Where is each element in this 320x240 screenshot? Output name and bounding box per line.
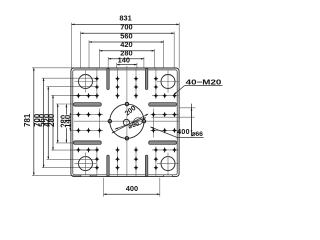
M20 tapped hole (174.5,95.7) xyxy=(172,93,177,99)
locating circle xyxy=(110,104,144,138)
hole column centerline x=155.9 bottom xyxy=(155,147,157,177)
M20 tapped hole (136,78.7) xyxy=(134,76,139,82)
leader diameter 200 xyxy=(112,114,148,133)
M20 tapped hole (88.5,114.6) xyxy=(86,112,91,118)
T-slot vertical bottom 1 xyxy=(107,155,109,176)
cluster column stub right xyxy=(152,109,154,138)
foot tab under BL tie bar xyxy=(81,175,90,177)
M20 tapped hole (99.6,114.6) xyxy=(97,112,102,118)
svg-text:400: 400 xyxy=(126,184,138,193)
small hole E on locating circle xyxy=(142,120,145,123)
M20 tapped hole (88.5,95.7) xyxy=(86,93,91,99)
tie bar hole BL xyxy=(75,153,97,175)
M20 tapped hole (136,149.9) xyxy=(134,147,139,153)
dimension 420 top xyxy=(99,40,154,68)
M20 tapped hole (99.6,130.4) xyxy=(97,127,102,133)
dimension 560 top xyxy=(89,31,164,68)
M20 tapped hole (155.9,159.2) xyxy=(154,156,159,162)
hole column centerline x=96.9 bottom xyxy=(96,147,98,177)
leader to right label xyxy=(150,127,203,138)
M20 tapped hole (155.9,95.7) xyxy=(154,93,159,99)
T-slot horizontal right 1 xyxy=(149,103,177,106)
wing row centerline y=149.9 right xyxy=(152,149,179,151)
dimension 280 near left edge xyxy=(59,104,68,142)
dimension 700 left xyxy=(33,78,97,167)
small hole W on locating circle xyxy=(108,120,111,123)
M20 tapped hole (155.9,167.7) xyxy=(154,165,159,171)
dimension 280 top xyxy=(108,49,144,69)
horizontal centerline xyxy=(74,120,179,122)
M20 tapped hole (174.5,130.4) xyxy=(172,127,177,133)
T-slot horizontal left 1 xyxy=(74,103,102,106)
M20 tapped hole (136,167.7) xyxy=(134,165,139,171)
tie bar hole BR xyxy=(157,153,179,175)
svg-text:781: 781 xyxy=(23,113,32,127)
M20 tapped hole (78.4,114.6) xyxy=(76,112,81,118)
dimension 400 bottom xyxy=(104,178,160,197)
T-slot vertical bottom 2 xyxy=(145,155,147,176)
wing row centerline y=95.7 right xyxy=(152,95,179,97)
M20 tapped hole (155.9,87) xyxy=(154,84,159,90)
hole column centerline x=136 top xyxy=(135,68,137,99)
M20 tapped hole (117.5,78.7) xyxy=(115,76,120,82)
M20 tapped hole (164.7,114.6) xyxy=(162,112,167,118)
M20 tapped hole (96.9,159.2) xyxy=(95,156,100,162)
M20 tapped hole (174.5,114.6) xyxy=(172,112,177,118)
small hole N on locating circle xyxy=(125,102,128,105)
M20 tapped hole (96.9,95.7) xyxy=(95,93,100,99)
leader diameter 60 xyxy=(115,118,146,130)
M20 tapped hole (78.4,95.7) xyxy=(76,93,81,99)
M20 tapped hole (136,87) xyxy=(134,84,139,90)
svg-text:560: 560 xyxy=(120,31,132,40)
extension line right xyxy=(152,116,195,118)
M20 tapped hole (96.9,78.7) xyxy=(95,76,100,82)
nozzle hole xyxy=(123,119,129,125)
M20 tapped hole (117.5,159.2) xyxy=(115,156,120,162)
tie bar hole TR xyxy=(157,71,179,93)
M20 tapped hole (96.9,167.7) xyxy=(95,165,100,171)
platen inner chamfer line xyxy=(73,70,177,175)
M20 tapped hole (78.4,130.4) xyxy=(76,127,81,133)
svg-text:280: 280 xyxy=(47,113,56,127)
hole column centerline x=155.9 top xyxy=(155,68,157,99)
dimension 781 left xyxy=(23,68,97,176)
M20 tapped hole (117.5,87) xyxy=(115,84,120,90)
M20 tapped hole (88.5,130.4) xyxy=(86,127,91,133)
hole column centerline x=136 bottom xyxy=(135,147,137,177)
M20 tapped hole (117.5,167.7) xyxy=(115,165,120,171)
dimension 140 near left edge xyxy=(63,113,72,131)
hole row centerline y=130.4 left xyxy=(71,129,103,131)
T-slot vertical top 2 xyxy=(145,69,147,90)
hole column centerline x=96.9 top xyxy=(96,68,98,99)
ellipse around label xyxy=(134,118,142,125)
T-slot vertical top 1 xyxy=(107,69,109,90)
dimension 700 top xyxy=(81,23,175,69)
M20 tapped hole (164.7,95.7) xyxy=(162,93,167,99)
hole column centerline x=117.5 bottom xyxy=(117,147,119,177)
small hole S on locating circle xyxy=(125,137,128,140)
M20 tapped hole (155.9,149.9) xyxy=(154,147,159,153)
tie bar hole TL xyxy=(75,71,97,93)
hole row centerline y=114.6 right xyxy=(151,114,180,116)
dimension 560 left xyxy=(38,87,97,160)
svg-text:831: 831 xyxy=(119,14,131,23)
dimension 280 left xyxy=(47,104,97,143)
M20 tapped hole (96.9,149.9) xyxy=(95,147,100,153)
label 40-M20 xyxy=(174,77,223,94)
platen outer outline xyxy=(71,68,179,177)
M20 tapped hole (117.5,95.7) xyxy=(115,93,120,99)
hole column centerline x=117.5 top xyxy=(117,68,119,99)
hole row centerline y=130.4 right xyxy=(151,129,180,131)
T-slot horizontal left 2 xyxy=(74,141,102,144)
M20 tapped hole (117.5,149.9) xyxy=(115,147,120,153)
M20 tapped hole (155.9,78.7) xyxy=(154,76,159,82)
M20 tapped hole (136,95.7) xyxy=(134,93,139,99)
M20 tapped hole (174.5,149.9) xyxy=(172,147,177,153)
foot tab under BR tie bar xyxy=(163,175,172,177)
M20 tapped hole (153.4,130.4) xyxy=(151,127,156,133)
svg-text:140: 140 xyxy=(118,55,130,64)
dimension 831 top xyxy=(72,14,180,69)
svg-text:700: 700 xyxy=(120,23,132,32)
wing row centerline y=95.7 left xyxy=(71,95,99,97)
dimension 140 top xyxy=(117,55,137,68)
M20 tapped hole (96.9,87) xyxy=(95,84,100,90)
svg-text:⌀66: ⌀66 xyxy=(191,131,203,138)
vertical centerline xyxy=(126,66,128,176)
wing row centerline y=149.9 left xyxy=(71,149,99,151)
svg-text:400: 400 xyxy=(177,129,189,136)
M20 tapped hole (78.4,149.9) xyxy=(76,147,81,153)
dimension 420 left xyxy=(42,95,97,150)
M20 tapped hole (164.7,130.4) xyxy=(162,127,167,133)
M20 tapped hole (136,159.2) xyxy=(134,156,139,162)
hole row centerline y=114.6 left xyxy=(71,114,103,116)
cluster column stub left xyxy=(99,109,101,138)
T-slot horizontal right 2 xyxy=(149,141,177,144)
M20 tapped hole (164.7,149.9) xyxy=(162,147,167,153)
M20 tapped hole (153.4,114.6) xyxy=(151,112,156,118)
M20 tapped hole (88.5,149.9) xyxy=(86,147,91,153)
dimension 400 right xyxy=(177,104,203,138)
